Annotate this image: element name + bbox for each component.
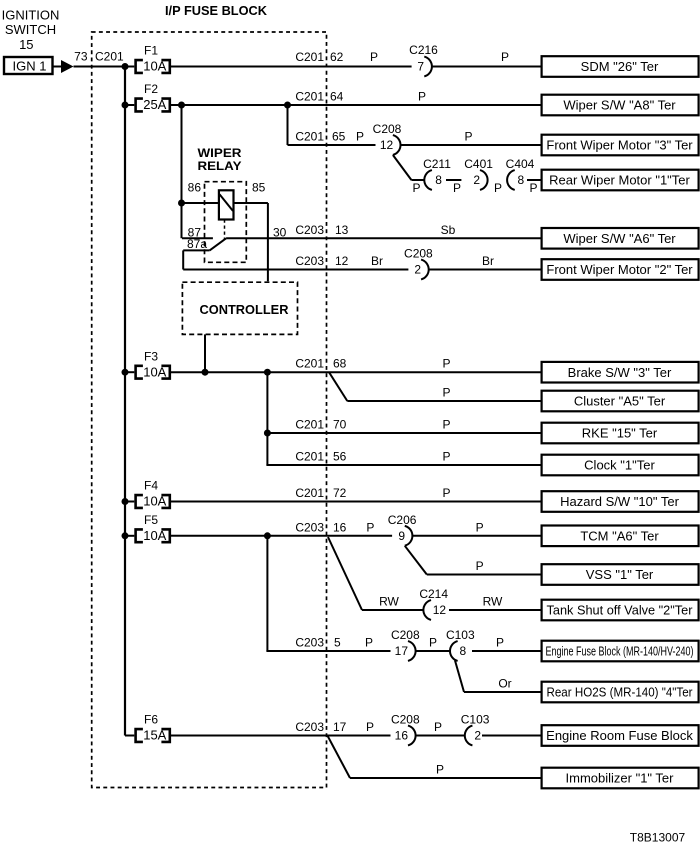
svg-text:C201: C201 xyxy=(295,90,324,104)
svg-text:72: 72 xyxy=(333,486,347,500)
svg-text:P: P xyxy=(356,130,364,144)
svg-text:7: 7 xyxy=(417,60,424,74)
svg-text:C206: C206 xyxy=(388,513,417,527)
svg-text:12: 12 xyxy=(433,603,447,617)
svg-text:73: 73 xyxy=(74,50,88,64)
svg-text:12: 12 xyxy=(380,138,394,152)
svg-text:C201: C201 xyxy=(295,130,324,144)
svg-text:P: P xyxy=(442,450,450,464)
svg-text:P: P xyxy=(365,636,373,650)
svg-text:64: 64 xyxy=(330,90,344,104)
svg-text:C201: C201 xyxy=(295,357,324,371)
svg-text:16: 16 xyxy=(395,729,409,743)
svg-text:62: 62 xyxy=(330,50,344,64)
svg-text:17: 17 xyxy=(333,720,347,734)
svg-text:RW: RW xyxy=(483,595,503,609)
svg-text:C216: C216 xyxy=(409,43,438,57)
svg-text:P: P xyxy=(464,130,472,144)
svg-text:Rear HO2S (MR-140) "4"Ter: Rear HO2S (MR-140) "4"Ter xyxy=(547,685,694,700)
svg-text:13: 13 xyxy=(335,223,349,237)
svg-text:VSS "1" Ter: VSS "1" Ter xyxy=(586,567,654,582)
svg-text:10A: 10A xyxy=(143,528,166,543)
svg-text:P: P xyxy=(453,181,461,195)
svg-text:Clock "1"Ter: Clock "1"Ter xyxy=(584,458,655,473)
svg-text:10A: 10A xyxy=(143,59,166,74)
svg-text:T8B13007: T8B13007 xyxy=(630,831,686,845)
svg-text:16: 16 xyxy=(333,520,347,534)
svg-text:P: P xyxy=(442,418,450,432)
svg-text:Br: Br xyxy=(482,254,494,268)
svg-text:P: P xyxy=(476,520,484,534)
svg-text:2: 2 xyxy=(473,173,480,187)
svg-text:P: P xyxy=(476,559,484,573)
svg-text:RKE "15" Ter: RKE "15" Ter xyxy=(582,426,658,441)
svg-text:P: P xyxy=(442,486,450,500)
svg-text:17: 17 xyxy=(395,644,409,658)
svg-text:C103: C103 xyxy=(446,628,475,642)
svg-text:10A: 10A xyxy=(143,494,166,509)
svg-text:8: 8 xyxy=(435,173,442,187)
svg-text:8: 8 xyxy=(460,644,467,658)
svg-text:5: 5 xyxy=(334,636,341,650)
svg-text:P: P xyxy=(501,50,509,64)
svg-text:9: 9 xyxy=(398,529,405,543)
svg-text:RELAY: RELAY xyxy=(198,159,242,173)
svg-text:Wiper S/W "A6" Ter: Wiper S/W "A6" Ter xyxy=(563,231,676,246)
svg-text:F3: F3 xyxy=(144,349,158,363)
svg-text:P: P xyxy=(429,636,437,650)
svg-text:CONTROLLER: CONTROLLER xyxy=(200,303,289,317)
svg-text:C201: C201 xyxy=(295,50,324,64)
svg-text:C208: C208 xyxy=(391,628,420,642)
svg-text:Hazard S/W "10" Ter: Hazard S/W "10" Ter xyxy=(560,494,679,509)
svg-text:Immobilizer "1" Ter: Immobilizer "1" Ter xyxy=(566,771,675,786)
svg-text:Engine Room Fuse Block: Engine Room Fuse Block xyxy=(546,728,693,743)
svg-text:P: P xyxy=(436,763,444,777)
svg-text:RW: RW xyxy=(379,595,399,609)
svg-text:C203: C203 xyxy=(295,720,324,734)
svg-text:I/P FUSE BLOCK: I/P FUSE BLOCK xyxy=(165,4,267,18)
svg-text:65: 65 xyxy=(332,130,346,144)
svg-text:F2: F2 xyxy=(144,82,158,96)
svg-text:C208: C208 xyxy=(391,713,420,727)
svg-text:12: 12 xyxy=(335,254,349,268)
svg-text:P: P xyxy=(442,386,450,400)
svg-text:C203: C203 xyxy=(295,520,324,534)
svg-text:P: P xyxy=(366,720,374,734)
svg-text:Or: Or xyxy=(498,677,511,691)
svg-text:F4: F4 xyxy=(144,479,158,493)
svg-text:C208: C208 xyxy=(404,247,433,261)
svg-text:P: P xyxy=(496,636,504,650)
svg-text:C201: C201 xyxy=(295,450,324,464)
svg-text:Tank Shut off Valve "2"Ter: Tank Shut off Valve "2"Ter xyxy=(547,603,694,618)
svg-text:Front Wiper Motor "2" Ter: Front Wiper Motor "2" Ter xyxy=(546,262,693,277)
svg-text:2: 2 xyxy=(474,729,481,743)
svg-text:Cluster "A5" Ter: Cluster "A5" Ter xyxy=(574,394,666,409)
svg-text:Sb: Sb xyxy=(441,223,456,237)
svg-text:2: 2 xyxy=(414,263,421,277)
svg-text:25A: 25A xyxy=(143,97,166,112)
svg-text:C201: C201 xyxy=(295,418,324,432)
svg-text:P: P xyxy=(370,50,378,64)
svg-text:P: P xyxy=(366,520,374,534)
svg-text:8: 8 xyxy=(518,173,525,187)
svg-text:TCM "A6" Ter: TCM "A6" Ter xyxy=(580,528,659,543)
svg-text:P: P xyxy=(434,720,442,734)
svg-text:Brake S/W "3" Ter: Brake S/W "3" Ter xyxy=(568,365,672,380)
svg-text:P: P xyxy=(412,181,420,195)
svg-text:C404: C404 xyxy=(506,157,535,171)
svg-text:86: 86 xyxy=(188,181,202,195)
svg-text:C203: C203 xyxy=(295,223,324,237)
svg-text:P: P xyxy=(442,357,450,371)
svg-text:SWITCH: SWITCH xyxy=(5,22,56,37)
svg-text:P: P xyxy=(529,181,537,195)
svg-text:Wiper S/W "A8" Ter: Wiper S/W "A8" Ter xyxy=(563,98,676,113)
svg-text:WIPER: WIPER xyxy=(198,146,242,160)
svg-text:SDM "26" Ter: SDM "26" Ter xyxy=(581,59,659,74)
svg-text:C211: C211 xyxy=(423,157,451,171)
svg-text:C201: C201 xyxy=(95,50,124,64)
svg-text:P: P xyxy=(494,181,502,195)
svg-text:Br: Br xyxy=(371,254,383,268)
svg-text:85: 85 xyxy=(252,181,266,195)
svg-text:56: 56 xyxy=(333,450,347,464)
svg-text:C203: C203 xyxy=(295,636,324,650)
svg-text:10A: 10A xyxy=(143,364,166,379)
svg-text:IGN 1: IGN 1 xyxy=(13,58,47,73)
svg-text:15A: 15A xyxy=(143,728,166,743)
svg-text:C103: C103 xyxy=(461,713,490,727)
svg-text:F5: F5 xyxy=(144,513,158,527)
svg-text:C201: C201 xyxy=(295,486,324,500)
svg-text:68: 68 xyxy=(333,357,347,371)
svg-text:Front Wiper Motor "3" Ter: Front Wiper Motor "3" Ter xyxy=(546,138,693,153)
svg-text:70: 70 xyxy=(333,418,347,432)
svg-text:C208: C208 xyxy=(373,122,402,136)
svg-text:Rear Wiper Motor "1"Ter: Rear Wiper Motor "1"Ter xyxy=(549,173,690,188)
svg-text:IGNITION: IGNITION xyxy=(2,7,60,22)
svg-text:F6: F6 xyxy=(144,713,158,727)
svg-text:C214: C214 xyxy=(419,587,448,601)
svg-text:Engine Fuse Block (MR-140/HV-2: Engine Fuse Block (MR-140/HV-240) xyxy=(546,644,694,659)
svg-text:C401: C401 xyxy=(464,157,493,171)
svg-text:C203: C203 xyxy=(295,254,324,268)
svg-text:P: P xyxy=(418,90,426,104)
svg-text:F1: F1 xyxy=(144,44,158,58)
svg-text:15: 15 xyxy=(19,37,33,52)
